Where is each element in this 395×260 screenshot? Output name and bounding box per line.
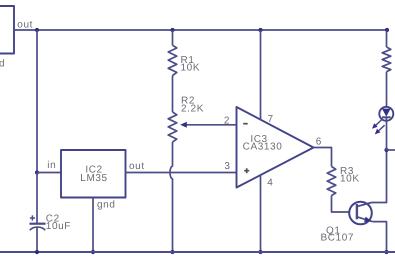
wire LED to collector node (386, 121, 388, 150)
svg-text:10K: 10K (340, 174, 360, 185)
node gnd rail / R2 (170, 250, 174, 254)
wire LM35 gnd to rail (92, 198, 94, 253)
op-amp IC3 triangle (237, 107, 314, 188)
LED arrow 2 (375, 125, 385, 134)
svg-text:d: d (0, 59, 5, 70)
node top rail / R1 column (170, 28, 174, 32)
wire collector up to LED node (372, 150, 387, 203)
svg-text:10uF: 10uF (46, 221, 71, 232)
wire resistor to LED (386, 72, 388, 110)
node top rail / left column (35, 28, 39, 32)
wire to LM35 in (37, 172, 61, 174)
svg-text:out: out (17, 20, 33, 31)
wire pin 4 to gnd rail (260, 175, 262, 252)
capacitor C2 (30, 215, 46, 252)
svg-text:6: 6 (316, 136, 322, 147)
svg-text:2: 2 (224, 115, 230, 126)
IC2 LM35 box (61, 150, 126, 198)
svg-text:CA3130: CA3130 (243, 141, 283, 152)
wire left column to C2 (36, 173, 38, 224)
svg-text:2.2K: 2.2K (181, 104, 204, 115)
node gnd rail / emitter (384, 250, 388, 254)
node LM35 in branch (35, 170, 39, 174)
LED D1 (379, 107, 393, 121)
wire top +V rail (14, 29, 387, 31)
svg-text:in: in (47, 160, 56, 171)
node LED cathode junction (384, 148, 388, 152)
resistor R3 (327, 167, 336, 196)
wire LM35 out to op-amp pin 3 (126, 172, 237, 174)
potentiometer R2 (168, 112, 177, 142)
minus input symbol (243, 123, 248, 125)
transistor Q1 (349, 202, 372, 225)
LED arrow 1 (372, 120, 382, 129)
wire bottom gnd rail (0, 251, 395, 253)
svg-text:10K: 10K (181, 62, 201, 73)
wire R1 top lead (172, 30, 174, 45)
wire stub to right edge (387, 149, 395, 151)
wire R2 bottom to rail with hop over out-wire (170, 142, 172, 252)
power supply block IC1 (cropped at left) (0, 6, 14, 54)
wire R2 wiper to pin 2 (186, 124, 237, 126)
node gnd rail / pin 4 (258, 250, 262, 254)
wire left column upper (36, 30, 38, 173)
wiper arrowhead (180, 122, 187, 128)
svg-text:4: 4 (267, 177, 273, 188)
node gnd rail / LM35 (91, 250, 95, 254)
node top rail / pin 7 column (258, 28, 262, 32)
svg-text:3: 3 (224, 161, 230, 172)
wire R3 to transistor base (332, 196, 357, 213)
wire pin 6 output (314, 148, 332, 167)
resistor (right, label cropped) (382, 47, 391, 72)
wire emitter down to rail (372, 222, 386, 252)
svg-text:gnd: gnd (97, 200, 116, 211)
node gnd rail / C2 column (35, 250, 39, 254)
svg-text:LM35: LM35 (80, 173, 107, 184)
plus input symbol (244, 168, 249, 173)
wire pin 7 to top rail (260, 30, 262, 120)
wire top rail to right resistor (386, 30, 388, 47)
svg-text:out: out (129, 161, 145, 172)
svg-text:7: 7 (268, 114, 274, 125)
wire between R1 and R2 (172, 76, 174, 113)
svg-text:BC107: BC107 (321, 233, 355, 244)
resistor R1 (168, 45, 177, 75)
node top rail right corner (385, 28, 389, 32)
